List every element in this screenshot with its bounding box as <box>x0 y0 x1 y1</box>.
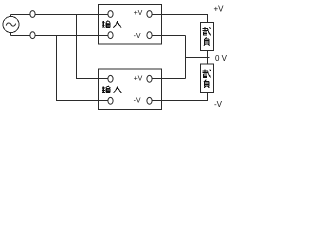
wire: branch from node at (56.5,35.5) down to PSU2 lower input <box>57 36 108 101</box>
svg-text:+V: +V <box>134 10 143 17</box>
load RL1 (负载) box <box>201 23 214 51</box>
wire: PSU1 -V output to 0V bus <box>152 35 186 37</box>
PSU2 input terminal pin (lower) <box>108 97 113 104</box>
PSU2 input terminal pin (upper) <box>108 75 113 82</box>
PSU2 -V output terminal pin <box>147 97 152 104</box>
wire: PSU2 +V output to 0V bus <box>152 78 186 80</box>
wire: bottom feed from AC source to PSU1 input <box>11 35 108 37</box>
PSU1 input terminal pin (lower) <box>108 32 113 39</box>
load RL2 (负载) box <box>201 64 214 93</box>
svg-text:-V: -V <box>134 97 141 104</box>
PSU2 box (bottom power supply) <box>99 69 162 110</box>
wire: AC source bottom lead stub <box>10 33 12 36</box>
wire: top feed from AC source to PSU1 input <box>11 14 108 16</box>
terminal plug circle: bottom line <box>30 32 35 39</box>
load RL2 label 负载 (vertical) <box>203 69 211 88</box>
PSU1 -V output terminal pin <box>147 32 152 39</box>
svg-text:-V: -V <box>134 33 141 40</box>
svg-text:+V: +V <box>214 5 225 14</box>
svg-text:-V: -V <box>214 100 223 109</box>
svg-text:0 V: 0 V <box>215 54 228 63</box>
PSU1 label 输入 (input) <box>102 21 121 28</box>
PSU2 label 输入 (input) <box>102 86 121 93</box>
wire: load RL1 bottom to load RL2 top through 0V node <box>207 51 209 65</box>
PSU1 input terminal pin (upper) <box>108 11 113 18</box>
PSU1 box (top power supply) <box>99 5 162 45</box>
wire: PSU2 -V output to load RL2 bottom <box>152 93 208 101</box>
wire: 0V bus vertical segment x=185.5 <box>185 36 187 79</box>
wire: AC source top lead stub <box>10 15 12 18</box>
load RL1 label 负载 (vertical) <box>203 27 211 46</box>
svg-text:+V: +V <box>134 75 143 82</box>
AC source G1 <box>3 17 19 33</box>
PSU1 +V output terminal pin <box>147 11 152 18</box>
PSU2 +V output terminal pin <box>147 75 152 82</box>
terminal plug circle: top line <box>30 11 35 18</box>
wire: 0V branch to load midpoint <box>186 57 210 59</box>
wire: PSU1 +V output to load RL1 top <box>152 15 208 23</box>
wire: branch from node at (76.5,14.5) down to PSU2 upper input <box>77 15 108 79</box>
